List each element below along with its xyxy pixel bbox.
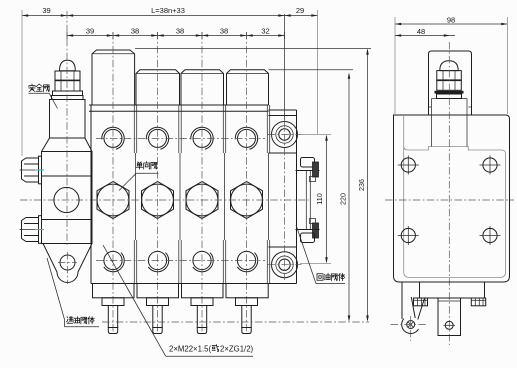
main horizontal centerline — [20, 199, 309, 201]
svg-text:32: 32 — [261, 27, 269, 36]
dim text 38 c — [220, 27, 228, 36]
side bolt lower centerline — [20, 229, 37, 231]
side spool stem — [438, 298, 461, 336]
section2 spool flange — [147, 298, 169, 306]
svg-text:29: 29 — [296, 6, 304, 15]
dim text L=38n+33 — [151, 6, 185, 15]
return plate bottom — [269, 283, 297, 285]
dim text 38 b — [176, 27, 184, 36]
svg-text:110: 110 — [315, 193, 324, 204]
svg-text:98: 98 — [447, 16, 455, 25]
bottom ports centerline — [96, 260, 265, 262]
section2 cap — [136, 70, 180, 105]
section2 top port — [146, 127, 168, 149]
svg-text:38: 38 — [131, 27, 139, 36]
section1 left edge — [90, 105, 92, 284]
inlet block lower line — [42, 219, 93, 221]
section1 top port — [102, 127, 124, 149]
section3 spool flange — [191, 298, 213, 306]
section joint x180 — [179, 105, 181, 284]
svg-text:38: 38 — [176, 27, 184, 36]
section2 check valve hex plug — [142, 182, 174, 219]
dim 110 line — [298, 135, 331, 264]
svg-text:L=38n+33: L=38n+33 — [151, 6, 185, 15]
side bottom plate — [420, 282, 485, 298]
section3 centerline — [201, 32, 203, 334]
side safety valve dome — [440, 61, 458, 71]
section2 bottom port — [148, 251, 168, 271]
section2 spool stem — [153, 306, 162, 334]
side mounting hole 490x235.5 — [480, 226, 501, 245]
section4 top port — [235, 127, 257, 149]
side body outline — [394, 115, 510, 282]
svg-text:2×ZG1/2): 2×ZG1/2) — [220, 345, 254, 354]
mounting ear — [43, 244, 92, 283]
inlet block upper line — [42, 175, 93, 177]
side bolt lower — [22, 216, 42, 244]
label jinyoufati leader — [47, 258, 99, 327]
label 2xM22 text — [169, 345, 254, 354]
section4 cap — [227, 70, 269, 105]
safety valve washer — [53, 91, 83, 96]
section1 bottom cover band — [93, 284, 135, 298]
svg-text:38: 38 — [220, 27, 228, 36]
label anquanfa text — [29, 84, 50, 92]
safety valve body — [50, 100, 86, 139]
section3 check valve hex plug — [186, 182, 218, 219]
section2 centerline — [157, 32, 159, 334]
section2 bottom cover band — [137, 284, 179, 298]
extension line right x317 — [317, 10, 319, 134]
dim 236 line — [135, 48, 371, 321]
side grub screw right — [471, 298, 485, 306]
side bolt upper cyan mark — [35, 169, 44, 171]
bottom stud nut — [296, 219, 320, 243]
section4 spool stem — [242, 306, 251, 334]
svg-text:39: 39 — [42, 6, 50, 15]
inlet block port circle — [54, 187, 79, 212]
return lug top hole — [268, 122, 302, 148]
label 2xM22 leader — [103, 245, 253, 356]
dim text 110 — [315, 193, 324, 204]
section joint x224.5 — [223, 105, 225, 284]
side ear hole — [391, 316, 427, 341]
side mounting ear — [402, 282, 425, 334]
label danxiangfa leader — [119, 173, 159, 190]
side view 98 dim — [395, 16, 507, 115]
svg-text:236: 236 — [357, 179, 366, 191]
section3 spool stem — [197, 306, 206, 334]
section3 bottom cover band — [182, 284, 224, 298]
section3 top port — [191, 127, 213, 149]
bottom stems centerline — [102, 321, 369, 323]
section4 spool flange — [236, 298, 258, 306]
side stem hole — [444, 321, 456, 329]
side bolt upper — [22, 156, 42, 184]
side bolt upper centerline — [20, 169, 37, 171]
safety valve nut lower — [55, 80, 80, 91]
section1 spool stem — [108, 306, 117, 334]
side mounting hole 408.3x165 — [398, 156, 419, 175]
body top second line — [89, 110, 269, 112]
valve boss side — [432, 99, 468, 147]
return plate lug lines — [269, 153, 297, 247]
bracket stud bar — [306, 170, 310, 230]
dim text 39 — [86, 27, 94, 36]
side mounting hole 490x165 — [480, 156, 501, 175]
dim text 38 a — [131, 27, 139, 36]
return plate right edge — [296, 110, 298, 284]
inlet block outline — [42, 152, 93, 244]
side bolt lower cyan mark — [35, 229, 44, 231]
section joint x135.5 — [134, 105, 136, 284]
side safety valve nuts — [437, 71, 462, 91]
side cover — [429, 51, 472, 115]
section joint x268.5 — [267, 105, 269, 284]
section4 bottom port — [237, 251, 257, 271]
section1 bonnet cap — [92, 50, 135, 105]
side mounting hole 408.3x235.5 — [398, 226, 419, 245]
dim text 236 — [357, 179, 366, 191]
label jinyoufati text — [67, 317, 95, 324]
extension line left x22 — [21, 10, 23, 156]
side safety valve base — [435, 91, 464, 99]
section1 spool flange — [102, 298, 124, 306]
svg-text:39: 39 — [86, 27, 94, 36]
dimension row2 line 39 38 38 38 32 — [67, 32, 285, 39]
safety valve flange — [52, 96, 84, 100]
label anquanfa leader — [29, 93, 58, 108]
section3 bottom port — [193, 251, 213, 271]
section4 check valve hex plug — [231, 182, 263, 219]
dim text 220 — [339, 193, 348, 205]
side valve centerline — [448, 42, 450, 345]
body top edge — [89, 104, 269, 106]
svg-text:220: 220 — [339, 193, 348, 205]
body bottom edge — [91, 283, 269, 285]
return plate centerline — [284, 14, 286, 280]
safety valve flare — [42, 138, 93, 152]
section1 centerline — [112, 32, 114, 334]
section3 cap — [181, 70, 224, 105]
dimension row1 line 39 / L=38n+33 / 29 — [22, 14, 318, 17]
side grub screw left — [414, 298, 428, 306]
section4 bottom cover band — [226, 284, 268, 298]
svg-text:48: 48 — [417, 27, 425, 36]
safety valve dome cap — [60, 60, 76, 70]
section1 check valve hex plug — [97, 182, 129, 219]
section1 bottom port — [104, 251, 124, 271]
safety valve nut upper — [55, 71, 80, 81]
side horizontal centerline — [385, 199, 514, 201]
top stud nut — [296, 158, 320, 182]
label huiyoufati text — [317, 273, 345, 280]
top ports centerline — [96, 137, 265, 139]
return plate top lines — [269, 110, 297, 116]
label huiyoufati leader — [296, 225, 345, 284]
dim text 29 — [296, 6, 304, 15]
section4 centerline — [246, 32, 248, 334]
return lug bottom hole — [268, 252, 302, 278]
svg-text:2×M22×1.5(: 2×M22×1.5( — [169, 345, 211, 354]
dim text 32 — [261, 27, 269, 36]
side view 48 dim — [395, 27, 455, 37]
dim text 39 left — [42, 6, 50, 15]
ear hole — [58, 252, 77, 284]
side inner face line — [404, 115, 506, 278]
label danxiangfa text — [136, 162, 157, 170]
dim 220 line — [269, 70, 354, 322]
safety valve centerline — [66, 11, 68, 246]
